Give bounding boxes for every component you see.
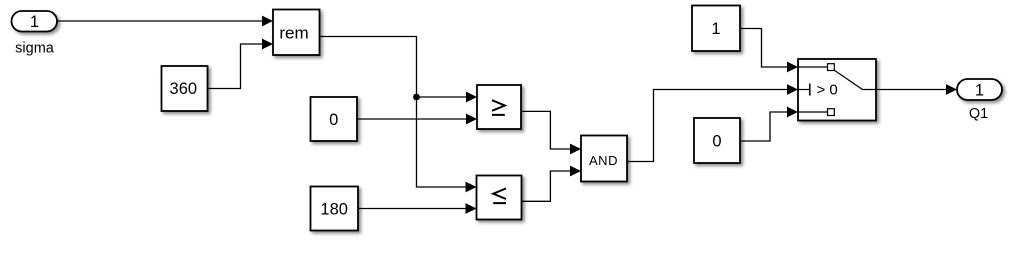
switch diagonal (834, 70, 876, 89)
switch port square in3 (828, 109, 835, 116)
constant C180 (311, 187, 359, 231)
inport 1 sigma (12, 11, 58, 32)
wire constant 180 to LE in2 (358, 208, 466, 210)
svg-text:> 0: > 0 (817, 82, 838, 99)
switch port line in1 (798, 66, 828, 68)
switch block (798, 59, 876, 121)
wire inport sigma to rem in1 (57, 20, 262, 22)
arrowhead switch in1 (787, 62, 798, 73)
svg-text:AND: AND (589, 153, 618, 168)
svg-text:360: 360 (170, 80, 198, 98)
wire AND out to switch in2 (627, 90, 787, 162)
svg-text:1: 1 (30, 13, 39, 31)
logical operator AND (581, 136, 627, 182)
wire LE out to AND in2 (522, 171, 571, 201)
constant C0 upper (311, 97, 358, 141)
constant C1 (692, 6, 740, 52)
arrowhead GE in1 (466, 92, 477, 103)
arrowhead AND in2 (570, 166, 581, 177)
math function rem (273, 10, 320, 56)
wire constant 0 lower to switch in3 (740, 112, 787, 141)
arrowhead AND in1 (570, 144, 581, 155)
wire constant 1 to switch in1 (740, 29, 787, 68)
svg-text:180: 180 (320, 200, 348, 218)
svg-text:1: 1 (975, 81, 984, 99)
arrowhead GE in2 (466, 114, 477, 125)
junction dot node (413, 94, 420, 101)
wire branch down to LE in1 (417, 97, 466, 187)
outport 1 Q1 (957, 79, 1002, 100)
svg-text:Q1: Q1 (969, 106, 988, 122)
wire GE out to AND in1 (521, 111, 570, 149)
switch port line in3 (798, 111, 828, 113)
wire constant 0 to GE in2 (357, 118, 466, 120)
arrowhead LE in1 (466, 182, 477, 193)
wire switch out to outport Q1 (876, 89, 946, 91)
switch port line in2 (798, 89, 810, 91)
arrowhead rem in1 (262, 16, 273, 27)
wire rem out to GE in1 (320, 37, 467, 98)
constant C0 lower (694, 118, 740, 163)
arrowhead LE in2 (466, 203, 477, 214)
arrowhead switch in2 (787, 84, 798, 95)
arrowhead switch in3 (787, 107, 798, 118)
svg-text:rem: rem (279, 23, 308, 42)
svg-text:1: 1 (711, 20, 720, 38)
wire constant 360 to rem in2 (208, 44, 263, 89)
svg-text:0: 0 (329, 111, 338, 129)
svg-text:0: 0 (712, 132, 721, 150)
constant C360 (162, 66, 208, 111)
relational operator LE (477, 176, 522, 220)
arrowhead rem in2 (262, 39, 273, 50)
arrowhead outport (946, 84, 957, 95)
svg-text:sigma: sigma (15, 40, 55, 56)
switch threshold bar (809, 84, 811, 96)
relational operator GE (477, 85, 521, 129)
switch port square in1 (828, 64, 835, 71)
